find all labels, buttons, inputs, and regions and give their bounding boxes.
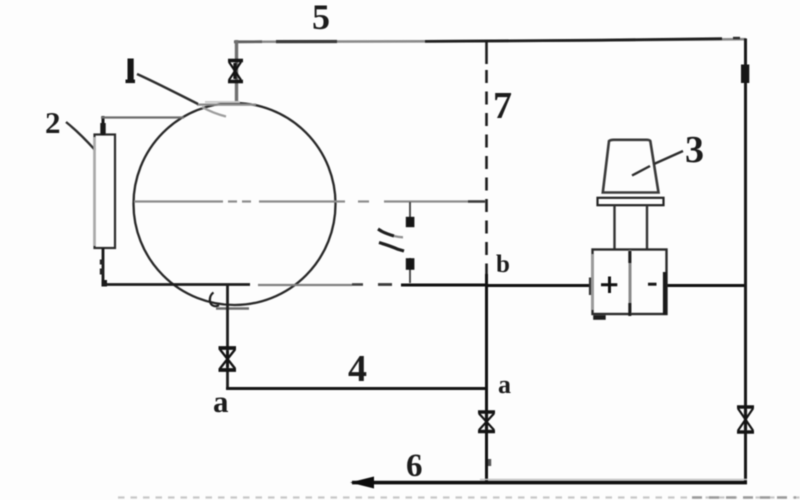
dimension H line upper part [409, 202, 411, 226]
valve V2 on drain pipe [219, 348, 237, 370]
wire top pipe line 5 [234, 39, 746, 42]
wire impulse pipe transmitter minus chamber to right line [667, 284, 746, 287]
wire lower tapping line dark right [401, 284, 488, 287]
leader from label 3 [654, 151, 683, 164]
plus sign [601, 277, 617, 294]
level gauge left edge light [93, 137, 95, 246]
valve V1 on tank top pipe [228, 61, 243, 82]
wire gauge bottom stub [102, 248, 105, 284]
wire lower tapping line grey dash [378, 283, 392, 286]
leader from label 1 [137, 74, 198, 104]
transmitter flange plate [598, 198, 664, 205]
dimension H line lower part [409, 258, 411, 283]
svg-text:6: 6 [406, 448, 423, 484]
wire impulse pipe b to transmitter plus chamber [488, 284, 593, 287]
transmitter neck left line [613, 205, 615, 250]
dimension H lower arrowhead [406, 258, 415, 270]
transmitter 3 head trapezoid [603, 140, 659, 193]
valve V4 on right line [737, 407, 754, 432]
valve V3 on vertical impulse line [478, 412, 495, 432]
wire gauge top pipe to tank [101, 116, 184, 118]
label 1 [128, 59, 134, 83]
wire gauge top nozzle stub [102, 116, 105, 135]
dimension H upper arrowhead [406, 217, 415, 227]
svg-text:a: a [498, 370, 511, 399]
svg-text:3: 3 [685, 129, 704, 171]
svg-text:2: 2 [45, 105, 61, 140]
transmitter body divider [629, 250, 632, 314]
wire right vertical line [744, 39, 747, 485]
wire vertical impulse line below b [485, 274, 488, 483]
wire top pipe dark segment right [425, 39, 722, 42]
tank bottom hook squiggle [210, 293, 219, 307]
scan artifact tick on impulse line [488, 459, 491, 466]
wire dashed equalizing line 7 [485, 40, 488, 64]
wire vertical drain pipe from tank bottom [226, 284, 229, 389]
wire bottom blowdown line 6 [480, 479, 747, 481]
wire lower tapping line grey segment [258, 284, 352, 286]
wire vertical pipe from line 5 to tank top [235, 40, 238, 104]
svg-text:4: 4 [348, 348, 367, 390]
scan artifact bottom dotted rule [118, 496, 800, 498]
level gauge body (2) [95, 135, 116, 249]
svg-text:5: 5 [312, 0, 330, 37]
arrow head on line 6 [350, 477, 374, 489]
centre line dark end [468, 200, 485, 202]
wire top pipe dark segment left [234, 40, 262, 43]
svg-text:b: b [496, 251, 510, 278]
wire line 4 [226, 387, 488, 390]
minus sign [648, 283, 657, 286]
leader from label 2 [66, 122, 95, 150]
transmitter body [593, 250, 667, 315]
transmitter inlet flange tick [589, 278, 591, 296]
tank centre dash-dot line [134, 200, 484, 202]
label H squiggle stroke 2 [379, 243, 404, 252]
tank top chord [197, 103, 256, 105]
wire lower tapping line left dark [102, 283, 250, 286]
transmitter neck right line [646, 205, 648, 250]
tank circle 1 [134, 103, 336, 305]
svg-text:7: 7 [493, 85, 512, 127]
right line dark blob [741, 65, 749, 84]
label H squiggle stroke 1 [378, 229, 394, 236]
tank bottom nozzle flange [216, 307, 249, 309]
